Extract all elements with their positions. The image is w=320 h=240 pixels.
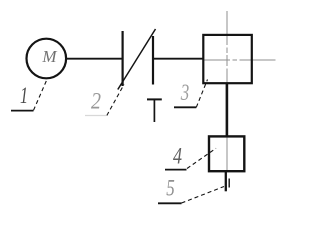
coupling diagonal slash xyxy=(118,29,156,90)
label 4 leader (dashed) xyxy=(187,148,216,168)
label 4 underline xyxy=(165,169,187,171)
label 2 underline (faint) xyxy=(85,115,106,117)
brake/support T symbol xyxy=(147,98,162,100)
spindle head block (small square) xyxy=(209,136,244,171)
wire: vertical spindle shaft xyxy=(226,83,229,137)
svg-text:4: 4 xyxy=(173,144,182,169)
gearbox block (square) xyxy=(203,35,252,83)
svg-text:3: 3 xyxy=(180,80,189,105)
wire: coupling to gearbox shaft xyxy=(154,58,203,60)
svg-text:1: 1 xyxy=(20,83,28,108)
motor M1 circle xyxy=(27,39,67,79)
vertical centerline (gearbox axis) xyxy=(226,11,228,84)
horizontal centerline (through gearbox, out to right) xyxy=(203,59,276,61)
label 5 underline xyxy=(158,202,182,204)
label 3 underline xyxy=(174,106,196,108)
svg-text:2: 2 xyxy=(91,89,101,114)
coupling left half-bar xyxy=(121,31,123,86)
vertical centerline through spindle head xyxy=(226,136,228,172)
svg-text:M: M xyxy=(41,47,57,66)
label 1 leader (dashed) xyxy=(34,81,47,111)
label 1 underline xyxy=(11,110,34,112)
label 2 leader (dashed) xyxy=(107,85,124,116)
wire: motor output shaft xyxy=(66,58,122,60)
coupling right half-bar xyxy=(152,36,154,85)
svg-text:5: 5 xyxy=(166,176,175,201)
label 3 leader (dashed) xyxy=(196,80,207,108)
tool (drill) below spindle head xyxy=(225,172,227,192)
label 5 leader (dashed) xyxy=(182,187,225,204)
